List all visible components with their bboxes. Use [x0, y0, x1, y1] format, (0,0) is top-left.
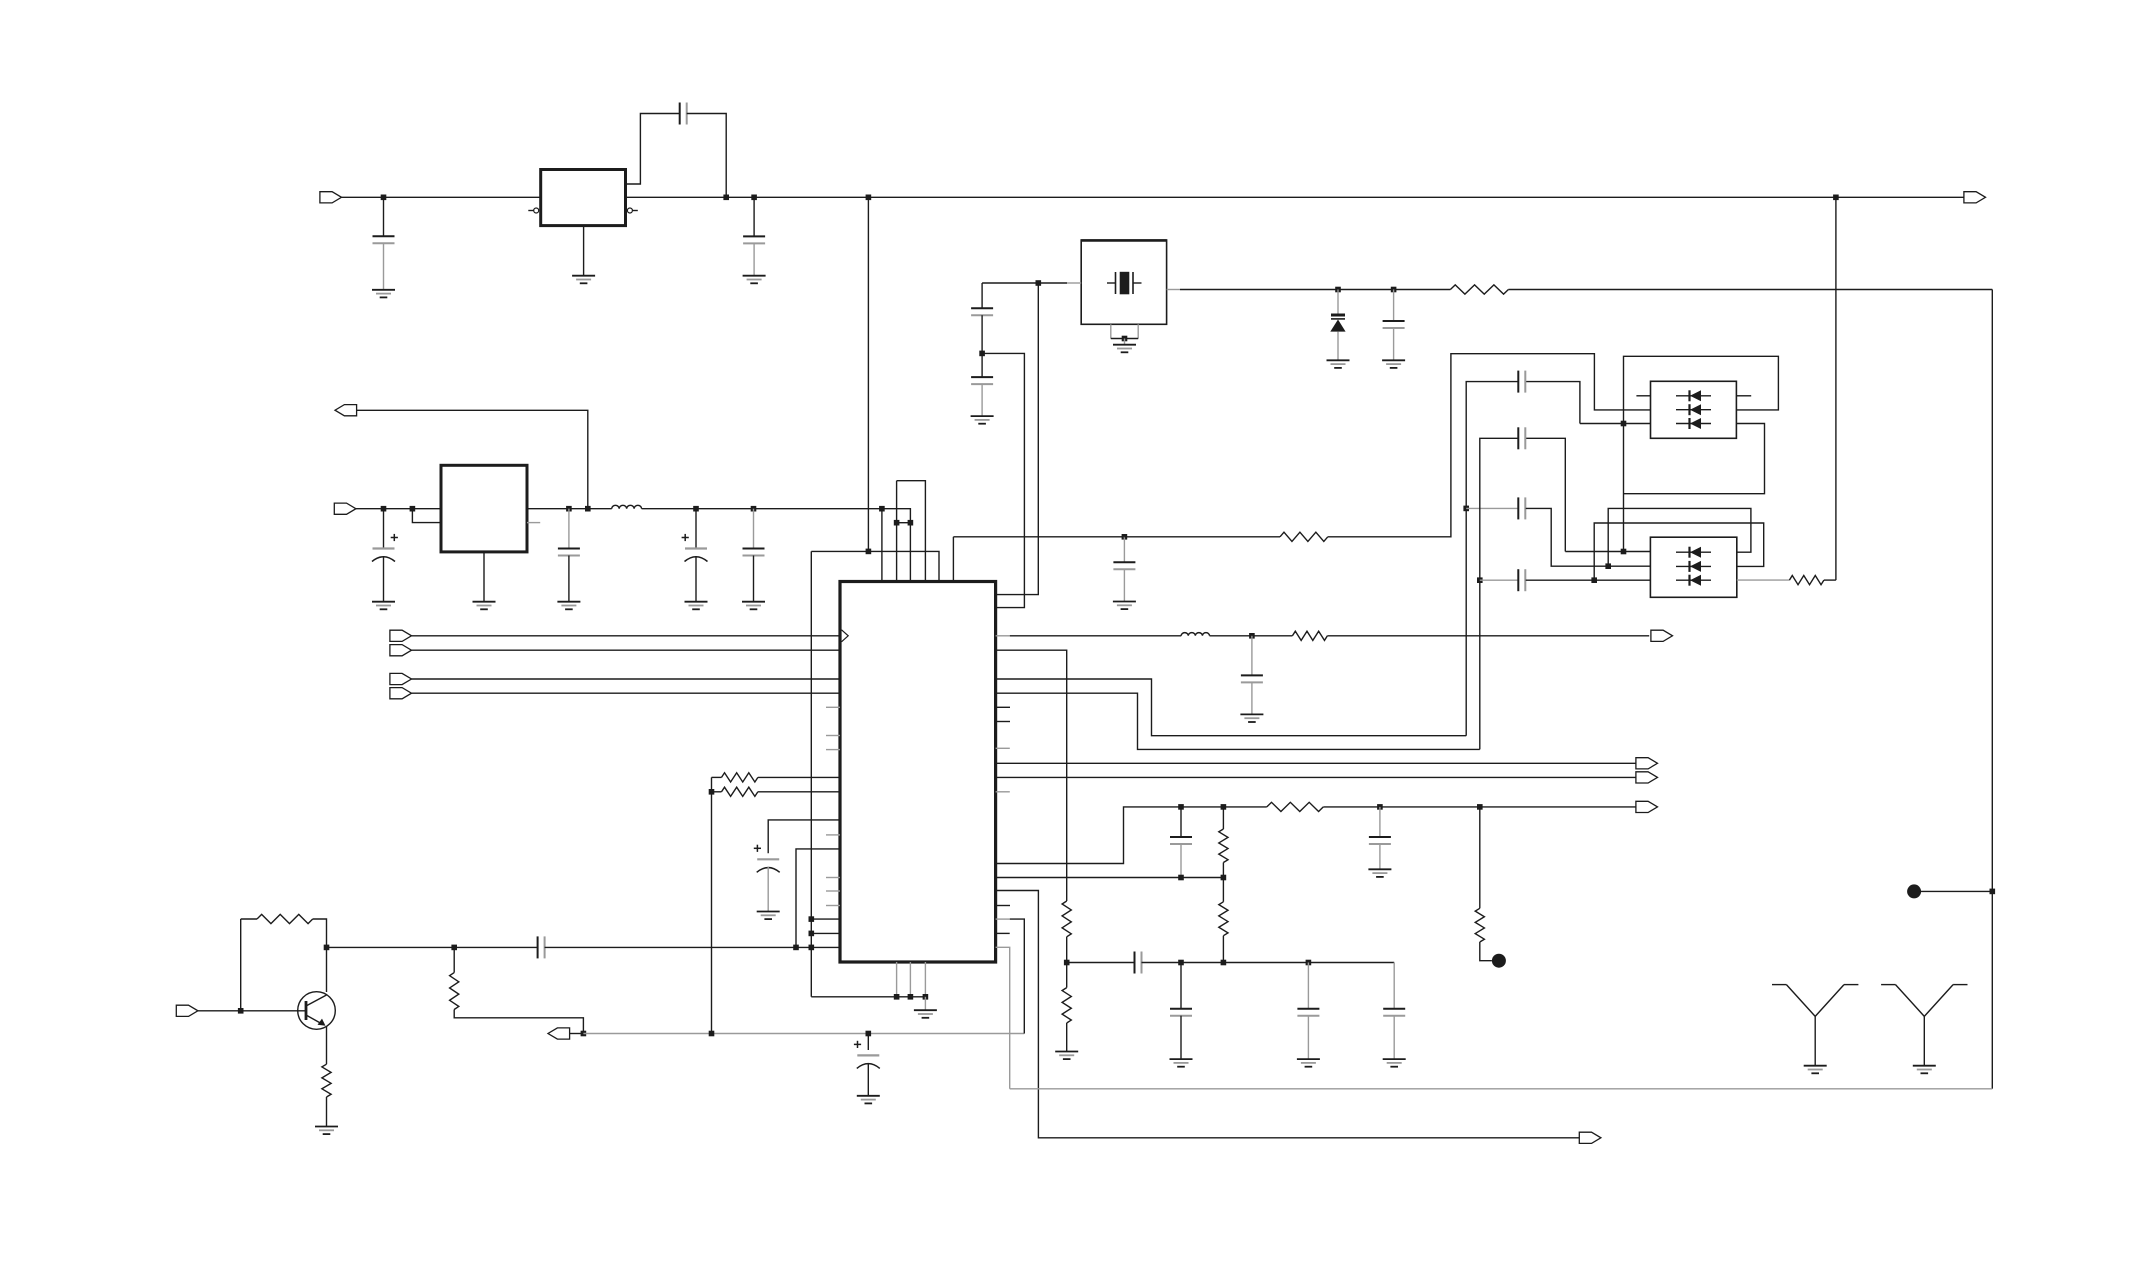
wire cap C22 lower	[1307, 1016, 1309, 1059]
capacitor C3	[743, 236, 765, 243]
wire bottom ground stem	[924, 997, 926, 1010]
pin stub IC-left y891	[826, 890, 840, 892]
capacitor C1	[373, 236, 395, 243]
wire U4 row2 loop	[1624, 356, 1779, 551]
resistor R3 (feedback)	[257, 914, 313, 923]
junction U5 row1 @1623	[1621, 549, 1627, 555]
wire cap C13 lower stem	[1393, 328, 1395, 360]
polarized capacitor C8	[754, 845, 780, 873]
wire vertical drop to resistor R9	[1835, 197, 1837, 580]
junction zener node	[1335, 287, 1341, 293]
junction row962 @1308	[1306, 960, 1312, 966]
wire input row 3 to IC	[412, 678, 841, 680]
wire cap C9 to IC	[545, 946, 812, 948]
polarized capacitor C10	[854, 1041, 880, 1069]
wire AGC net (grey)	[583, 1033, 1024, 1035]
pin stub IC-left y749	[826, 749, 840, 751]
wire cap C11 leg	[981, 283, 983, 308]
wire cap C14 stem	[1123, 537, 1125, 562]
wire X1 left net	[982, 282, 1067, 284]
wire C16 lead	[1466, 507, 1518, 509]
wire row10 long	[996, 776, 1636, 778]
wire TP1 link	[1921, 890, 1992, 892]
wire cap C17 hook	[1526, 438, 1566, 551]
resistor R12	[1219, 829, 1228, 863]
wire IC pin to collector net	[796, 849, 840, 948]
ground below C3	[743, 276, 766, 284]
wire IC bottom pin x896	[896, 962, 898, 997]
wire link T2-T3	[897, 522, 911, 524]
wire IC pin k20-left	[811, 918, 840, 920]
capacitor C9 (series)	[538, 936, 545, 958]
wire cap C3 lower stem	[753, 243, 755, 275]
capacitor C7	[743, 549, 765, 556]
ground below U2	[572, 276, 595, 284]
pin stub IC k19 right	[996, 905, 1010, 907]
voltage regulator U2	[541, 170, 626, 226]
wire pol-cap C8 lower stem	[767, 867, 769, 912]
junction rail2 @754	[751, 506, 757, 512]
wire rail2 left segment	[356, 508, 441, 510]
capacitor C24	[1170, 837, 1192, 844]
wire X1 bottom pin left	[1110, 324, 1112, 338]
wire row962 right	[1142, 962, 1395, 964]
wire rail2 end corner to pin T3	[882, 509, 911, 582]
pin stub IC k6 right	[996, 721, 1010, 723]
ground below R11	[1055, 1052, 1078, 1060]
wire R5 to connector	[454, 1010, 583, 1034]
junction U5 row3 @1594	[1591, 577, 1597, 583]
junction row12 @1223	[1221, 804, 1227, 810]
junction rail2 @696	[693, 506, 699, 512]
inductor L2	[1181, 633, 1209, 636]
junction row962 @1181	[1178, 960, 1184, 966]
connector J15 (bottom output)	[1579, 1132, 1601, 1143]
wire L2 to R8	[1210, 635, 1293, 637]
capacitor C22	[1297, 1009, 1319, 1016]
capacitor C19	[1241, 675, 1263, 682]
capacitor C17	[1518, 427, 1525, 449]
wire pol-cap C10 lower stem	[867, 1063, 869, 1096]
wire C18 right	[1526, 579, 1651, 581]
wire C12 lower stem	[981, 384, 983, 416]
ground below C14	[1113, 602, 1136, 610]
junction x811 @947	[809, 945, 815, 951]
wire IC pin T6 to crystal-row	[952, 537, 954, 582]
test point TP2	[1492, 954, 1506, 968]
junction R2 left	[709, 789, 715, 795]
wire row22 to bus	[996, 947, 1010, 1089]
wire IC pin k21-left	[811, 932, 840, 934]
connector J8 (left input row 4)	[390, 688, 412, 699]
wire cap C5 lower stem	[568, 556, 570, 602]
wire row537 to R7	[1124, 536, 1280, 538]
ground below C12	[971, 416, 994, 424]
junction base node	[238, 1008, 244, 1014]
clock input triangle on IC	[842, 630, 849, 642]
junction U4 row3 left	[1621, 421, 1627, 427]
capacitor C16	[1518, 497, 1525, 519]
junction bottom pin x910	[908, 994, 914, 1000]
wire IC bottom pin x910	[909, 962, 911, 997]
junction row17 @1223	[1221, 875, 1227, 881]
wire row12 hook	[996, 807, 1267, 864]
ground below ANT1	[1804, 1066, 1827, 1074]
diode U4-2	[1676, 404, 1711, 415]
junction rail2 @882 (IC pin T1)	[879, 506, 885, 512]
junction rail1 @726	[723, 195, 729, 201]
wire pin T2 vertical	[896, 481, 898, 582]
wire right bus vertical x1992	[1991, 290, 1993, 1089]
junction TP1 on bus	[1990, 889, 1996, 895]
wire U3 ground pin	[483, 552, 485, 602]
ground below C6	[685, 602, 708, 610]
pin stub X1 left	[1067, 282, 1081, 284]
connector J2 (top-right output)	[1964, 192, 1986, 203]
pin circle U2 right	[627, 208, 637, 213]
wire pol-cap C6 lower stem	[695, 556, 697, 602]
junction AGC @868	[866, 1031, 872, 1037]
wire J3 feedback run	[357, 410, 588, 508]
wire row18 hook	[996, 891, 1580, 1138]
resistor R7	[1280, 532, 1328, 541]
capacitor C12	[971, 377, 993, 384]
wire pol-cap C10 stem	[867, 1034, 869, 1051]
ground below C19	[1240, 714, 1263, 722]
wire C17 to vertical bus B	[1480, 438, 1519, 749]
ground below C23	[1383, 1059, 1406, 1067]
test point TP1	[1907, 884, 1921, 898]
capacitor C5	[558, 549, 580, 556]
ground below C13	[1382, 360, 1405, 368]
wire R13 top leg	[1222, 878, 1224, 902]
ground below C1	[372, 290, 395, 298]
pin stub IC k5 right	[996, 706, 1010, 708]
polarized capacitor C4	[372, 534, 398, 562]
wire U5 row1 loop	[1608, 508, 1751, 566]
wire row17 from IC	[996, 877, 1224, 879]
ground below C5	[557, 602, 580, 610]
resistor R5	[450, 973, 459, 1010]
diode U5-2	[1676, 561, 1711, 572]
wire R3 left leg	[240, 919, 242, 1011]
junction collector RC @454	[451, 945, 457, 951]
resistor R6	[1450, 285, 1508, 294]
wire cap C3 stem	[753, 197, 755, 236]
wire zener to ground	[1337, 332, 1339, 361]
wire X1 ground stem	[1124, 339, 1126, 345]
capacitor C18	[1518, 569, 1525, 591]
inductor L1	[612, 505, 642, 508]
junction row12 @1181	[1178, 804, 1184, 810]
wire R6 to right bus	[1508, 289, 1992, 291]
connector J12 (row9 output)	[1636, 758, 1658, 769]
crystal symbol inside X1	[1107, 272, 1142, 295]
connector J7 (left input row 3)	[390, 673, 412, 684]
junction C11/C12 node	[979, 351, 985, 357]
ground below C8	[757, 912, 780, 920]
polarized capacitor C6	[682, 534, 708, 562]
wire node H552	[811, 551, 939, 581]
connector J5 (left input row 1)	[390, 630, 412, 641]
junction node H552 @868	[866, 549, 872, 555]
connector J3 (left output arrow)	[335, 405, 357, 416]
pin stub IC k21 right	[996, 932, 1010, 934]
wire U5 row3 right lead	[1737, 579, 1790, 581]
wire collector to cap C9	[327, 946, 538, 948]
resistor R15	[1475, 908, 1484, 942]
voltage regulator U3	[441, 465, 527, 552]
wire emitter leg	[326, 1027, 328, 1065]
wire IC pin k22-left stub	[811, 946, 840, 948]
junction cap C18 on bus B	[1477, 577, 1483, 583]
ground below C10	[857, 1096, 880, 1104]
resistor R14	[1267, 802, 1324, 811]
junction row12 @1480	[1477, 804, 1483, 810]
wire C16 right route	[1526, 508, 1651, 566]
wire row4 route	[996, 693, 1480, 749]
wire bottom bus row1089	[1010, 1088, 1993, 1090]
wire row962 corner cap C23	[1393, 963, 1395, 1009]
capacitor C23	[1383, 1009, 1405, 1016]
IC U1 (main controller)	[840, 582, 996, 963]
wire cap C25 lower	[1379, 844, 1381, 869]
wire R1 left leg	[711, 777, 713, 1033]
junction bottom pin x925	[923, 994, 929, 1000]
junction row0 cap	[1249, 633, 1255, 639]
wire R9 to V1836	[1824, 579, 1836, 581]
wire pol-cap C4 stem	[383, 509, 385, 549]
junction rail2 @383	[381, 506, 387, 512]
pin stub IC k11 right	[996, 791, 1010, 793]
wire cap C24 lower	[1180, 844, 1182, 878]
wire input row 4 to IC	[412, 692, 841, 694]
wire X1 left to IC pin	[996, 283, 1039, 595]
diode U5-3	[1676, 575, 1711, 586]
junction X1 ground	[1122, 336, 1128, 342]
wire input row 2 to IC	[412, 649, 841, 651]
wire C11/C12 node to IC	[982, 353, 1024, 607]
wire R15 to testpoint	[1480, 942, 1492, 961]
wire input row 1 to IC	[412, 635, 841, 637]
pin stub IC-left y834	[826, 834, 840, 836]
pin stub IC row0 right	[996, 635, 1010, 637]
wire row0 to L2	[1010, 635, 1181, 637]
wire X1 right net	[1180, 289, 1450, 291]
wire U5 row2 loop	[1594, 523, 1764, 580]
wire cap C1 stem	[383, 197, 385, 236]
wire R2 lead-in	[712, 791, 722, 793]
wire cap C7 lower stem	[753, 556, 755, 602]
wire IC pin T1	[881, 509, 883, 582]
connector J4 (second input)	[334, 503, 356, 514]
pin stub IC-left y877	[826, 877, 840, 879]
junction pin T3 link	[908, 520, 914, 526]
wire cap C1 lower stem	[383, 243, 385, 289]
wire U2 feedback loop left	[626, 114, 680, 185]
pin stub U4 row1 left	[1636, 395, 1650, 397]
junction x811 @933	[809, 931, 815, 937]
wire row3 route	[996, 679, 1467, 736]
wire cap C7 stem	[753, 509, 755, 549]
junction collector net @796	[793, 945, 799, 951]
wire pol-cap C4 lower stem	[383, 556, 385, 602]
wire cap C22 stem	[1307, 963, 1309, 1009]
pin stub IC-left y707	[826, 706, 840, 708]
pin stub IC-left y905	[826, 905, 840, 907]
wire divider node to cap C20	[1067, 962, 1135, 964]
capacitor C2 (feedback)	[680, 103, 687, 125]
wire base lead	[198, 1010, 306, 1012]
junction rail2 @412	[410, 506, 416, 512]
wire cap C19 stem	[1251, 636, 1253, 676]
wire R3 lead-in	[241, 918, 257, 920]
wire R12 top leg	[1222, 807, 1224, 829]
junction row962 @1223	[1221, 960, 1227, 966]
wire C18 lead	[1480, 579, 1519, 581]
pin stub IC k20 right	[996, 918, 1010, 920]
wire R2 to IC	[758, 791, 840, 793]
diode U4-3	[1676, 418, 1711, 429]
wire pol-cap C8 hook	[768, 820, 840, 853]
junction divider node	[1064, 960, 1070, 966]
ground below C21	[1170, 1059, 1193, 1067]
wire emitter to ground	[326, 1097, 328, 1127]
junction cap C16 on bus A	[1463, 506, 1469, 512]
antenna ANT2	[1881, 985, 1967, 1066]
ground below IC	[914, 1010, 937, 1018]
junction rail1 @754	[751, 195, 757, 201]
wire row0 to connector	[1327, 635, 1649, 637]
resistor R9	[1789, 576, 1824, 585]
resistor R10	[1062, 901, 1071, 937]
junction row17 @1181	[1178, 875, 1184, 881]
wire rail2 mid segment	[527, 508, 612, 510]
junction rail1 @1836	[1833, 195, 1839, 201]
pin stub IC-left y735	[826, 735, 840, 737]
connector J11 (row0 output)	[1651, 630, 1673, 641]
ground below U3	[473, 602, 496, 610]
wire row1 to divider	[996, 650, 1067, 901]
junction rail1 @868	[866, 195, 872, 201]
wire cap C24 stem	[1180, 807, 1182, 837]
ground below X1	[1113, 345, 1136, 353]
wire U4 row3 right loop	[1624, 424, 1765, 494]
junction x811 @919	[809, 916, 815, 922]
junction rail2 @587	[585, 506, 591, 512]
wire rail2 after L1	[642, 508, 882, 510]
capacitor C21	[1170, 1009, 1192, 1016]
crystal box X1 top edge accent	[1081, 239, 1166, 242]
wire X1 bottom tie	[1111, 338, 1138, 340]
wire RC divider leg	[453, 947, 455, 972]
wire rail1 right segment	[1836, 196, 1964, 198]
connector J14 (row12 output)	[1636, 801, 1658, 812]
antenna ANT1	[1772, 985, 1858, 1066]
junction X1 left @1038	[1036, 280, 1042, 286]
wire row9 long	[996, 762, 1636, 764]
wire cap C23 lower	[1393, 1016, 1395, 1059]
resistor R1	[722, 773, 758, 782]
junction AGC @711	[709, 1031, 715, 1037]
wire R11 to ground	[1066, 1023, 1068, 1052]
resistor R4 (emitter)	[322, 1064, 331, 1097]
diode array U4	[1651, 381, 1737, 438]
wire cap C14 lower stem	[1123, 569, 1125, 601]
wire U5 row1 left net	[1565, 551, 1650, 553]
pin stub U3 right lower	[527, 522, 540, 524]
wire cap C5 stem	[568, 509, 570, 549]
wire pol-cap C6 stem	[695, 509, 697, 549]
wire U3 lower pin step	[412, 509, 441, 523]
resistor R2	[722, 787, 758, 796]
wire cap C13 stem	[1393, 290, 1395, 322]
wire R7 to loop	[1328, 354, 1651, 537]
diode array U5	[1650, 537, 1736, 597]
wire cap C19 lower stem	[1251, 682, 1253, 714]
wire R3 to collector	[313, 919, 327, 992]
junction row537 cap	[1122, 534, 1128, 540]
junction rail1 @383	[381, 195, 387, 201]
connector J9 (transistor input)	[176, 1005, 198, 1016]
wire left vertical bus x811	[810, 551, 812, 996]
wire cap C21 lower	[1180, 1016, 1182, 1059]
wire cap C15 hook	[1526, 382, 1580, 424]
ground below R4	[315, 1127, 338, 1135]
wire C15 to vertical bus A	[1466, 382, 1518, 736]
wire row12 after R14	[1323, 806, 1636, 808]
junction pin T2 link	[894, 520, 900, 526]
capacitor C20	[1135, 952, 1142, 974]
diode U4-1	[1676, 390, 1711, 401]
zener diode D1	[1330, 315, 1345, 332]
resistor R11	[1062, 988, 1071, 1023]
junction cap C13 node	[1391, 287, 1397, 293]
wire R1 lead-in	[712, 776, 722, 778]
junction bottom pin x896	[894, 994, 900, 1000]
wire bottom pin bus	[811, 996, 926, 998]
junction row2 @1608	[1605, 563, 1611, 569]
pin stub IC k8 right	[996, 747, 1010, 749]
wire cap C25 stem	[1379, 807, 1381, 837]
wire U4 row3 left net	[1580, 423, 1651, 425]
capacitor C11	[971, 308, 993, 315]
junction collector	[324, 945, 330, 951]
transistor Q1	[298, 992, 336, 1030]
ground below D1	[1327, 360, 1350, 368]
wire IC bottom pin x925	[924, 962, 926, 997]
diode U5-1	[1676, 547, 1711, 558]
connector J1 (top-left input)	[320, 192, 342, 203]
wire J10 stub	[570, 1033, 584, 1035]
pin stub X1 right	[1167, 289, 1180, 291]
capacitor C14	[1113, 562, 1135, 569]
wire testpoint branch	[1479, 807, 1481, 908]
ground below ANT2	[1913, 1066, 1936, 1074]
wire AGC up to IC pin k20	[1010, 919, 1025, 1033]
wire R13 bottom leg	[1222, 936, 1224, 963]
connector J6 (left input row 2)	[390, 645, 412, 656]
connector J13 (row10 output)	[1636, 772, 1658, 783]
wire loop T2-T4	[897, 481, 926, 582]
wire C11-C12 link	[981, 315, 983, 377]
wire row537	[953, 536, 1124, 538]
ground below C4	[372, 602, 395, 610]
wire rail1 main segment	[626, 196, 1836, 198]
wire zener stem	[1337, 290, 1339, 315]
wire vertical drop rail1 to node	[867, 197, 869, 552]
wire R12 bottom leg	[1222, 863, 1224, 878]
